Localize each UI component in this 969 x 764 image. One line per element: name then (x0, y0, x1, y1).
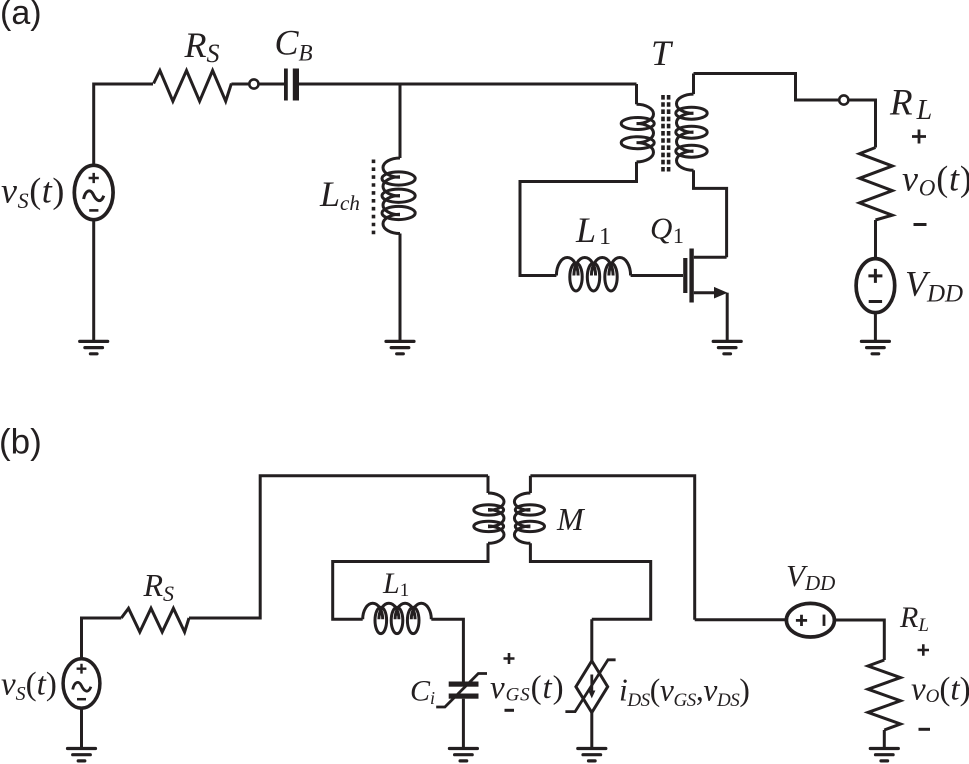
inductor Lch coil (383, 158, 400, 234)
svg-text:VDD: VDD (786, 558, 835, 595)
svg-text:M: M (556, 501, 586, 537)
source vS (a) (74, 165, 113, 219)
capacitor Ci top plate (449, 682, 479, 687)
wire: RL to VDD (a) (874, 220, 877, 259)
transformer T secondary stem (692, 74, 695, 95)
ground (iDS) (578, 749, 606, 761)
resistor RL (b) (868, 660, 901, 730)
transformer T primary winding (637, 104, 654, 162)
transformer T core dashes (663, 95, 669, 172)
svg-text:RS: RS (143, 567, 175, 606)
svg-text:iDS(vGS,vDS): iDS(vGS,vDS) (619, 673, 749, 712)
Ci variable arrow (436, 674, 487, 708)
ground (vS a) (80, 341, 108, 353)
plus (vGS) (504, 653, 515, 664)
node: open-circle input terminal (249, 79, 258, 88)
resistor RL (a) (860, 148, 893, 221)
ground (RL b) (870, 749, 898, 761)
wire: T primary bottom to L1 loop (520, 162, 637, 276)
wire: vS(a) top lead and top-left segment (94, 84, 153, 166)
ground (VDD a) (861, 341, 889, 353)
wire: L1 to Q1 gate (631, 274, 683, 277)
svg-text:Q1: Q1 (650, 211, 684, 249)
transistor Q1 channel bar (689, 249, 693, 303)
Lch dotted core (372, 160, 376, 236)
wire: node to RL (a) (848, 100, 875, 148)
wire: T secondary bottom to Q1 drain (694, 170, 727, 257)
transformer T primary stem (635, 84, 638, 104)
wire: M secondary bottom to iDS (530, 543, 650, 661)
source vS (b) (63, 659, 100, 708)
svg-text:RS: RS (184, 25, 220, 68)
plus (RL b) (918, 644, 930, 655)
transformer M primary stem (487, 476, 490, 493)
wire: node to CB (259, 83, 285, 86)
wire: Q1 source to ground (726, 293, 729, 342)
svg-text:L1: L1 (382, 567, 409, 601)
wire: RL (b) to ground (883, 730, 886, 749)
wire: vS(b) to RS(b) (82, 618, 122, 659)
iDS internal arrow (590, 675, 593, 693)
wire: iDS to ground (590, 713, 593, 749)
minus (vGS) (505, 709, 515, 712)
dependent source iDS diamond (576, 661, 608, 713)
svg-text:vGS(t): vGS(t) (490, 670, 564, 706)
resistor RS (a) (154, 71, 232, 102)
svg-text:CB: CB (275, 23, 313, 66)
wire: L1(b) to Ci (431, 619, 463, 681)
plus (RL a) (912, 130, 926, 144)
svg-text:Lch: Lch (319, 174, 360, 215)
capacitor Ci bottom plate (449, 694, 479, 699)
wire: T secondary top to output node (694, 74, 840, 101)
wire: vS(b) to ground (80, 708, 83, 748)
wire: Q1 source lead (694, 291, 715, 294)
minus (RL a) (914, 223, 927, 226)
source VDD (b) (786, 603, 834, 637)
svg-text:Ci: Ci (410, 675, 435, 709)
ground (Ci) (449, 749, 477, 761)
Q1 source arrow (714, 287, 728, 299)
iDS variable diagonal (565, 660, 615, 712)
inductor L1 (b) (363, 603, 432, 619)
minus (RL b) (919, 728, 931, 731)
svg-text:vO(t): vO(t) (911, 672, 969, 708)
inductor L1 (a) (556, 258, 630, 276)
wire: vS(a) to ground (92, 220, 95, 342)
svg-text:vO(t): vO(t) (902, 159, 969, 201)
svg-text:vS(t): vS(t) (1, 667, 57, 706)
svg-text:(a): (a) (0, 0, 42, 32)
source VDD (a) (856, 259, 895, 313)
svg-text:RL: RL (889, 83, 932, 127)
ground (Lch) (386, 341, 414, 353)
svg-text:VDD: VDD (905, 264, 963, 308)
svg-text:T: T (651, 33, 674, 73)
capacitor CB right plate (293, 69, 299, 101)
wire: M primary bottom to L1 (b) (333, 543, 488, 619)
svg-text:(b): (b) (0, 423, 42, 462)
wire: Lch to ground (399, 234, 402, 342)
wire: RS to input node (231, 83, 249, 86)
transformer M primary winding (488, 493, 504, 543)
ground (vS b) (68, 749, 96, 761)
capacitor CB left plate (284, 69, 288, 101)
wire: Ci to ground (462, 699, 465, 749)
wire: VDD (a) to ground (874, 313, 877, 342)
wire: RS(b) up to transformer M primary (189, 476, 488, 618)
svg-text:vS(t): vS(t) (1, 171, 65, 214)
svg-text:RL: RL (899, 601, 929, 636)
transistor Q1 gate bar (683, 258, 687, 293)
wire: junction down to Lch (399, 84, 402, 158)
resistor RS (b) (121, 608, 189, 632)
transformer M secondary stem (529, 476, 532, 493)
wire: CB to transformer T primary (junction at x=400) (299, 83, 637, 86)
ground (Q1) (713, 341, 741, 353)
wire: Q1 drain lead (694, 256, 727, 259)
transformer T secondary winding (677, 94, 694, 170)
wire: M secondary top to VDD (b) (530, 476, 786, 620)
svg-text:L1: L1 (575, 210, 611, 250)
transformer M secondary winding (514, 493, 530, 543)
node: open-circle output terminal (a) (839, 95, 848, 104)
wire: VDD (b) to RL (b) (834, 620, 884, 660)
